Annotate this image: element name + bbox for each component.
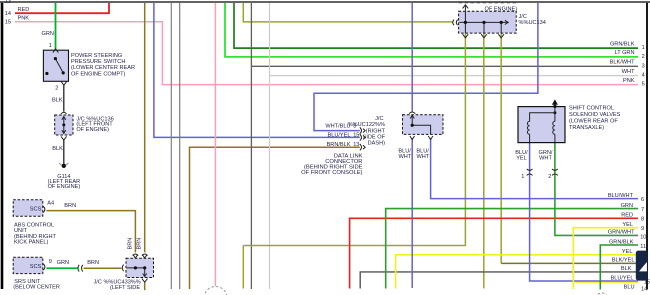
svg-text:PNK: PNK — [18, 16, 30, 22]
svg-text:GRN: GRN — [621, 203, 633, 209]
svg-text:%%UC122%%: %%UC122%% — [348, 122, 385, 128]
svg-text:1: 1 — [642, 45, 645, 51]
svg-text:BLK/YEL: BLK/YEL — [612, 258, 635, 264]
svg-text:YEL: YEL — [516, 156, 527, 162]
svg-text:RED: RED — [18, 7, 30, 13]
svg-text:11: 11 — [640, 244, 646, 250]
svg-text:YEL: YEL — [622, 222, 633, 228]
svg-text:GRN/BLK: GRN/BLK — [610, 41, 635, 47]
svg-text:7: 7 — [641, 207, 644, 213]
svg-text:WHT: WHT — [399, 154, 412, 160]
svg-text:9: 9 — [49, 259, 52, 265]
svg-text:WHT: WHT — [539, 156, 552, 162]
svg-text:PRESSURE SWITCH: PRESSURE SWITCH — [71, 59, 125, 65]
svg-text:BLU/WHT: BLU/WHT — [608, 193, 634, 199]
svg-text:1: 1 — [521, 174, 524, 180]
svg-text:15: 15 — [5, 20, 11, 26]
svg-text:14: 14 — [641, 287, 647, 293]
svg-text:8: 8 — [641, 217, 644, 223]
svg-text:BLK/WHT: BLK/WHT — [610, 60, 635, 66]
svg-text:KICK PANEL): KICK PANEL) — [14, 239, 49, 245]
svg-text:%%UC134: %%UC134 — [519, 20, 546, 26]
svg-text:BRN: BRN — [87, 260, 99, 266]
svg-text:GRN/WHT: GRN/WHT — [608, 230, 635, 236]
svg-text:(LEFT SIDE: (LEFT SIDE — [110, 285, 140, 291]
svg-text:BRN: BRN — [128, 238, 134, 250]
svg-text:GRN: GRN — [57, 260, 69, 266]
svg-text:(RIGHT: (RIGHT — [366, 129, 386, 135]
svg-text:13: 13 — [353, 142, 359, 148]
svg-text:BLK: BLK — [52, 146, 63, 152]
svg-text:4: 4 — [642, 73, 645, 79]
svg-text:BLU/YEL: BLU/YEL — [327, 133, 350, 139]
svg-text:13: 13 — [5, 0, 11, 5]
svg-text:TRANSAXLE): TRANSAXLE) — [569, 125, 604, 131]
svg-text:SCS: SCS — [30, 207, 42, 213]
svg-text:BRN/BLK: BRN/BLK — [327, 142, 351, 148]
svg-text:LT GRN: LT GRN — [615, 50, 635, 56]
svg-text:15: 15 — [353, 133, 359, 139]
svg-text:6: 6 — [641, 197, 644, 203]
svg-text:(LOWER REAR OF: (LOWER REAR OF — [569, 118, 618, 124]
svg-text:OF ENGINE COMPT): OF ENGINE COMPT) — [71, 71, 126, 77]
svg-text:SIDE OF: SIDE OF — [363, 135, 386, 141]
svg-text:OF ENGINE): OF ENGINE) — [76, 127, 109, 133]
svg-text:PNK: PNK — [623, 78, 635, 84]
svg-text:SCS: SCS — [30, 264, 42, 270]
svg-text:9: 9 — [641, 226, 644, 232]
svg-text:BRN: BRN — [64, 203, 76, 209]
svg-text:2: 2 — [548, 174, 551, 180]
svg-text:GRN/BLK: GRN/BLK — [609, 239, 634, 245]
svg-text:2: 2 — [55, 85, 58, 91]
svg-text:1: 1 — [49, 43, 52, 49]
svg-text:POWER STEERING: POWER STEERING — [71, 53, 122, 59]
svg-text:OF ENGINE): OF ENGINE) — [485, 6, 518, 12]
svg-text:10: 10 — [640, 234, 646, 240]
svg-text:OF FRONT CONSOLE): OF FRONT CONSOLE) — [301, 170, 362, 176]
svg-text:YEL: YEL — [622, 249, 633, 255]
svg-text:5: 5 — [642, 82, 645, 88]
svg-text:J/C: J/C — [375, 116, 383, 122]
svg-text:WHT: WHT — [622, 69, 635, 75]
svg-text:BRN: BRN — [137, 238, 143, 250]
svg-text:BLK: BLK — [52, 98, 63, 104]
svg-text:RED: RED — [621, 213, 633, 219]
svg-text:OF ENGINE): OF ENGINE) — [48, 184, 81, 190]
svg-text:SHIFT CONTROL: SHIFT CONTROL — [569, 105, 614, 111]
svg-text:2: 2 — [642, 54, 645, 60]
svg-text:DASH): DASH) — [368, 141, 386, 147]
svg-text:(LOWER CENTER REAR: (LOWER CENTER REAR — [71, 65, 135, 71]
svg-text:14: 14 — [5, 11, 11, 17]
svg-text:BLU/YEL: BLU/YEL — [610, 275, 633, 281]
svg-text:BLU: BLU — [624, 284, 635, 290]
svg-text:GRN: GRN — [42, 31, 54, 37]
svg-text:SOLENOID VALVES: SOLENOID VALVES — [569, 112, 621, 118]
svg-text:3: 3 — [642, 63, 645, 69]
svg-text:A4: A4 — [47, 201, 54, 207]
svg-text:BLK: BLK — [621, 266, 632, 272]
svg-text:WHT: WHT — [417, 154, 430, 160]
svg-text:(BELOW CENTER: (BELOW CENTER — [13, 285, 60, 291]
